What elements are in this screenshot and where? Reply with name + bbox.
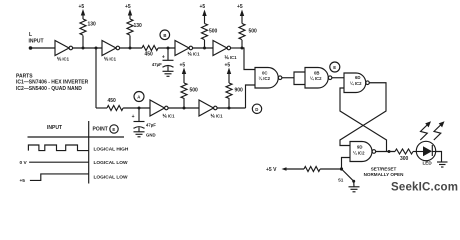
node junction R8 bbox=[228, 107, 231, 110]
wire G1 out to G2 bbox=[282, 77, 294, 79]
svg-text:L: L bbox=[29, 32, 32, 38]
svg-text:SeekIC.com: SeekIC.com bbox=[391, 182, 458, 194]
LED emission arrow 1 bbox=[420, 121, 431, 140]
svg-text:+: + bbox=[162, 54, 165, 60]
svg-text:D: D bbox=[255, 107, 258, 112]
ground C1 bbox=[163, 71, 174, 76]
waveform flat low bbox=[29, 161, 89, 163]
resistor R1 130 pull-up bbox=[80, 9, 96, 48]
svg-text:INPUT: INPUT bbox=[29, 39, 44, 45]
node A bbox=[134, 92, 144, 102]
svg-text:NORMALLY OPEN: NORMALLY OPEN bbox=[364, 172, 405, 177]
wire R6 to IC1e bbox=[123, 107, 150, 109]
svg-text:⅙ IC1: ⅙ IC1 bbox=[104, 57, 117, 62]
LED emission arrow 2 bbox=[434, 121, 445, 140]
wire G4 out to R9 bbox=[376, 151, 395, 153]
node E header circle bbox=[110, 125, 118, 133]
svg-text:PARTS: PARTS bbox=[16, 74, 33, 80]
svg-text:¼ IC2: ¼ IC2 bbox=[350, 81, 362, 86]
wire R9 to LED bbox=[413, 151, 416, 153]
wire G4 lower input riser bbox=[342, 158, 351, 170]
resistor R3 450 series bbox=[142, 46, 158, 58]
wire to gate G1 lower input bbox=[246, 85, 256, 108]
node junction R7 bbox=[183, 107, 186, 110]
svg-text:⅙ IC1: ⅙ IC1 bbox=[57, 57, 70, 62]
wire IC1e out bbox=[168, 107, 199, 109]
svg-text:LOGICAL LOW: LOGICAL LOW bbox=[94, 160, 128, 166]
LED D1 bbox=[416, 141, 435, 165]
svg-text:⅙ IC1: ⅙ IC1 bbox=[211, 114, 224, 119]
svg-text:+5: +5 bbox=[200, 4, 206, 10]
resistor R4 500 pull-up bbox=[202, 10, 218, 49]
svg-text:LOGICAL LOW: LOGICAL LOW bbox=[94, 175, 128, 181]
node E bbox=[330, 62, 340, 72]
svg-text:47µF: 47µF bbox=[152, 62, 162, 67]
wire G2 out to G3 bbox=[332, 77, 344, 79]
node junction switch bbox=[340, 167, 343, 170]
node junction R4 bbox=[203, 47, 206, 50]
inverter U1e 1/6 IC1 bbox=[150, 100, 175, 119]
wire IC1f out bbox=[217, 107, 245, 109]
resistor R10 bbox=[304, 167, 320, 172]
table header underline bbox=[28, 136, 125, 138]
svg-text:500: 500 bbox=[249, 29, 258, 35]
svg-text:B: B bbox=[163, 33, 166, 38]
capacitor C2 47uF bbox=[132, 108, 157, 132]
svg-text:130: 130 bbox=[88, 22, 97, 28]
resistor R8 900 pull-up bbox=[226, 68, 243, 109]
nand gate G3 1/4 IC2 bbox=[344, 73, 369, 93]
svg-text:+5: +5 bbox=[79, 4, 85, 10]
svg-text:450: 450 bbox=[108, 98, 117, 104]
wire IC1d out bbox=[231, 47, 244, 49]
svg-text:E: E bbox=[112, 127, 115, 132]
svg-text:E: E bbox=[333, 65, 336, 70]
svg-text:6D: 6D bbox=[355, 75, 361, 80]
svg-text:¼ IC2: ¼ IC2 bbox=[353, 150, 365, 155]
svg-text:¼ IC2: ¼ IC2 bbox=[310, 76, 322, 81]
resistor R7 500 pull-up bbox=[181, 68, 198, 109]
wire riser to lower row bbox=[95, 48, 97, 108]
svg-text:450: 450 bbox=[145, 51, 154, 57]
node D bbox=[252, 104, 261, 113]
wire LED to ground bbox=[436, 152, 442, 163]
nand gate G2 1/4 IC2 bbox=[305, 68, 332, 89]
input terminal L INPUT bbox=[29, 32, 44, 50]
wire IC1a out bbox=[73, 47, 102, 49]
inverter U1f 1/6 IC1 bbox=[199, 100, 223, 119]
svg-text:0C: 0C bbox=[262, 71, 268, 76]
svg-text:¼ IC2: ¼ IC2 bbox=[259, 76, 271, 81]
svg-text:⅙ IC1: ⅙ IC1 bbox=[188, 52, 201, 57]
svg-text:LOGICAL HIGH: LOGICAL HIGH bbox=[94, 147, 129, 153]
inverter U1b 1/6 IC1 bbox=[102, 41, 120, 62]
wire IC1c out bbox=[193, 47, 213, 49]
svg-text:500: 500 bbox=[209, 29, 218, 35]
svg-text:+5: +5 bbox=[180, 63, 186, 69]
node junction A bbox=[138, 107, 141, 110]
svg-text:+5: +5 bbox=[237, 4, 243, 10]
resistor R2 130 pull-up bbox=[127, 9, 142, 48]
svg-text:⅙ IC1: ⅙ IC1 bbox=[225, 55, 238, 60]
nand gate G4 1/4 IC2 bbox=[350, 142, 376, 162]
inverter U1d 1/6 IC1 bbox=[213, 41, 237, 61]
svg-text:GND: GND bbox=[146, 133, 156, 138]
resistor R9 300 bbox=[395, 149, 413, 162]
svg-text:9D: 9D bbox=[357, 145, 363, 150]
svg-text:IC1—SN7406 - HEX INVERTER: IC1—SN7406 - HEX INVERTER bbox=[16, 80, 89, 86]
svg-text:+5: +5 bbox=[20, 178, 26, 184]
ground C2 GND bbox=[134, 132, 156, 138]
node junction G4 out bbox=[388, 150, 391, 153]
wire IC1b out bbox=[120, 47, 142, 49]
svg-text:0 V: 0 V bbox=[20, 160, 28, 166]
wire lower row start bbox=[96, 107, 107, 109]
node junction R2 bbox=[129, 47, 132, 50]
resistor R5 500 pull-up bbox=[239, 10, 257, 49]
svg-text:47µF: 47µF bbox=[146, 123, 156, 128]
svg-text:900: 900 bbox=[235, 88, 244, 94]
ground S1 bbox=[349, 187, 360, 192]
svg-text:INPUT: INPUT bbox=[47, 125, 62, 131]
parts list text bbox=[16, 74, 89, 92]
node junction R5 bbox=[241, 47, 244, 50]
svg-text:+5 V: +5 V bbox=[266, 167, 277, 173]
svg-text:POINT: POINT bbox=[93, 127, 108, 133]
wire R10 to junction bbox=[320, 168, 341, 170]
wire R3 to IC1c bbox=[158, 47, 175, 49]
svg-text:⅙ IC1: ⅙ IC1 bbox=[163, 114, 176, 119]
wire to gate G1 top input bbox=[242, 48, 255, 70]
svg-text:IC2—SN5400 - QUAD NAND: IC2—SN5400 - QUAD NAND bbox=[16, 86, 82, 92]
switch S1 bbox=[338, 169, 355, 187]
ground LED bbox=[437, 162, 448, 167]
svg-text:LED: LED bbox=[423, 161, 433, 166]
label SET/RESET NORMALLY OPEN bbox=[364, 167, 405, 178]
waveform step bbox=[30, 174, 89, 181]
wire input to IC1a bbox=[32, 47, 56, 49]
table header INPUT / POINT E bbox=[47, 125, 108, 133]
wire G4 out feedback to G3 bbox=[340, 88, 387, 152]
node junction riser bbox=[95, 47, 98, 50]
svg-text:300: 300 bbox=[400, 156, 409, 162]
capacitor C1 47uF bbox=[152, 48, 174, 71]
resistor R6 450 series bbox=[107, 98, 123, 111]
svg-text:S1: S1 bbox=[338, 178, 344, 183]
inverter U1a 1/6 IC1 bbox=[55, 41, 73, 62]
svg-text:+5: +5 bbox=[125, 4, 131, 10]
svg-text:130: 130 bbox=[134, 23, 143, 29]
node junction R1 bbox=[82, 47, 85, 50]
node B bbox=[160, 30, 170, 40]
inverter U1c 1/6 IC1 bbox=[175, 41, 200, 57]
table divider bbox=[88, 121, 90, 184]
svg-text:+: + bbox=[132, 114, 135, 120]
node junction B bbox=[167, 47, 170, 50]
svg-text:0B: 0B bbox=[314, 71, 320, 76]
wire G2 input tie bbox=[294, 72, 305, 85]
waveform square wave bbox=[28, 145, 88, 151]
power +5V arrow left bbox=[266, 167, 304, 173]
nand gate G1 1/4 IC2 bbox=[255, 68, 282, 89]
svg-text:+5: +5 bbox=[225, 63, 231, 69]
svg-text:500: 500 bbox=[190, 88, 199, 94]
svg-text:A: A bbox=[137, 94, 140, 99]
svg-text:SET/RESET: SET/RESET bbox=[371, 167, 397, 172]
wire G3 out to latch cross bbox=[340, 83, 386, 146]
